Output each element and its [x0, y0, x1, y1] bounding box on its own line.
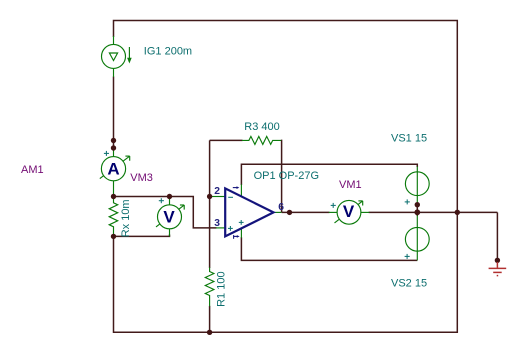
svg-text:R3 400: R3 400 [244, 121, 279, 133]
svg-text:VS1 15: VS1 15 [391, 132, 427, 144]
svg-text:3: 3 [214, 218, 220, 229]
svg-text:VM3: VM3 [130, 172, 153, 184]
svg-text:2: 2 [214, 186, 220, 197]
svg-text:6: 6 [278, 202, 284, 213]
svg-text:Rx 10m: Rx 10m [120, 199, 132, 237]
svg-text:VM1: VM1 [339, 179, 362, 191]
svg-text:VS2 15: VS2 15 [391, 277, 427, 289]
svg-text:V: V [163, 207, 175, 226]
svg-text:OP1 OP-27G: OP1 OP-27G [254, 170, 319, 182]
svg-text:AM1: AM1 [21, 164, 44, 176]
svg-text:IG1 200m: IG1 200m [144, 46, 192, 58]
svg-text:R1 100: R1 100 [216, 271, 228, 306]
svg-text:A: A [107, 159, 119, 178]
svg-text:V: V [343, 202, 355, 221]
